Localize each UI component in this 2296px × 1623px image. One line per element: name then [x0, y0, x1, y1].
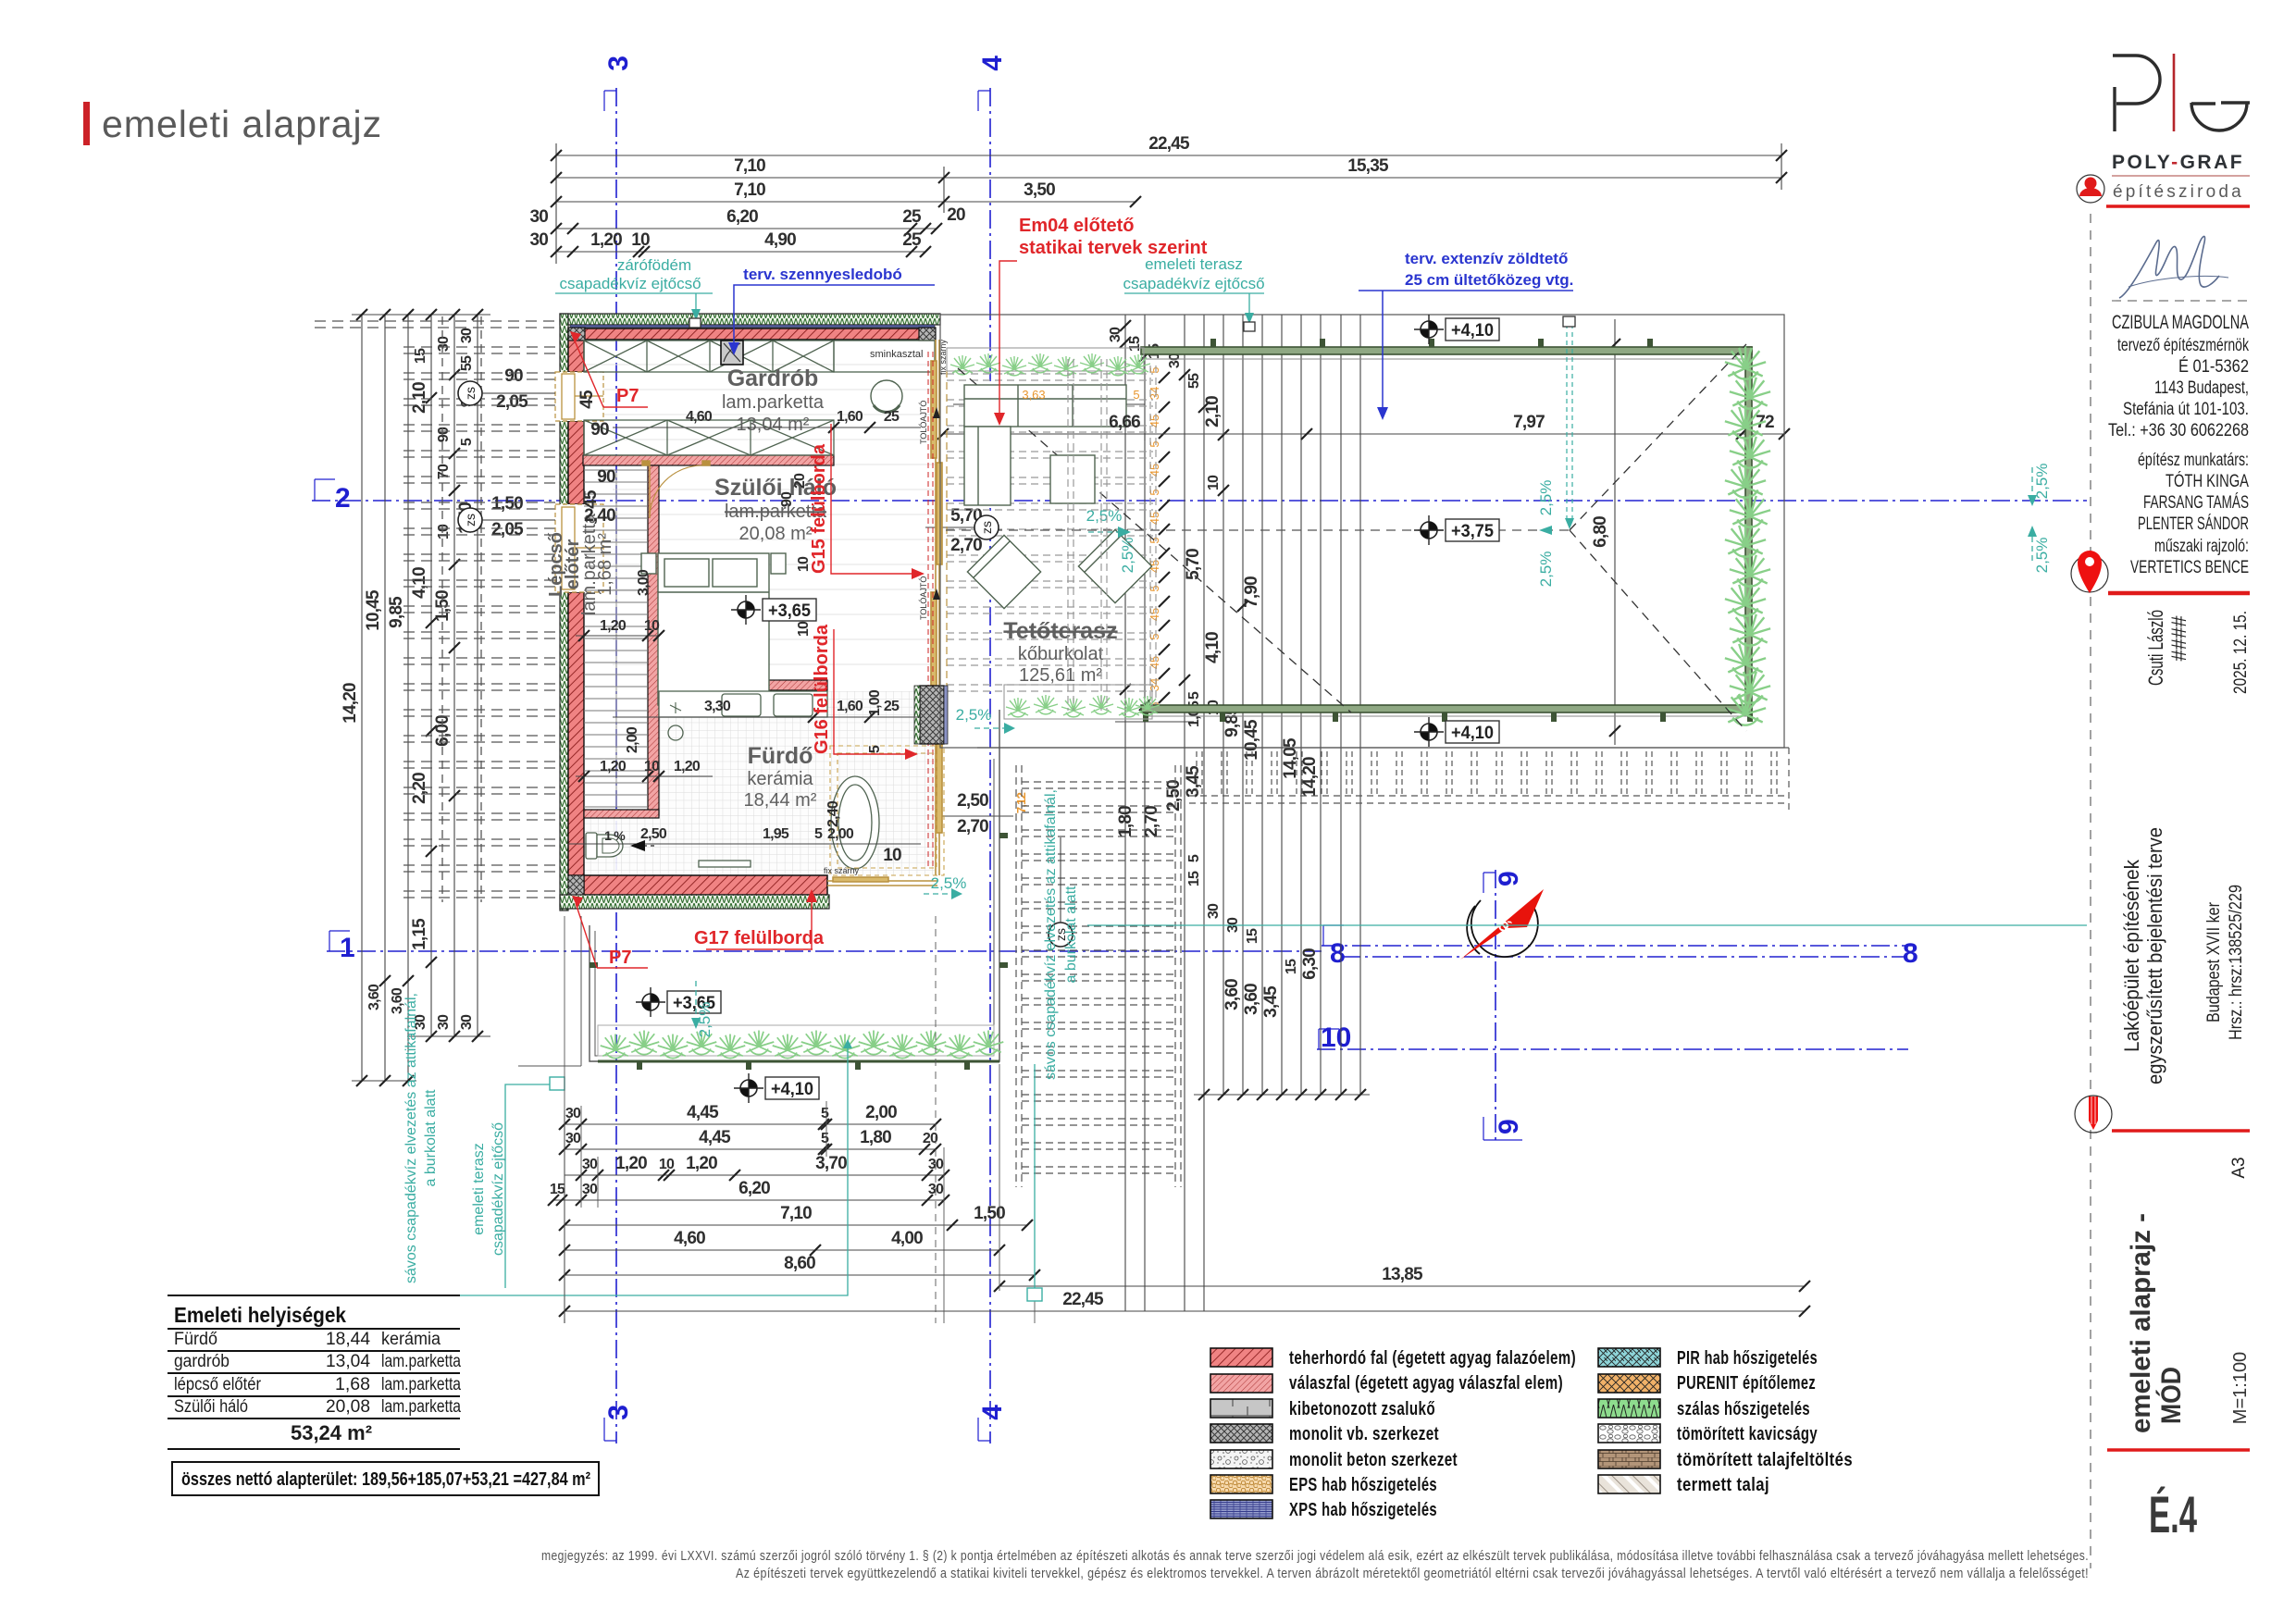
pin icon — [2071, 551, 2108, 593]
svg-text:7,10: 7,10 — [734, 180, 765, 200]
svg-text:45: 45 — [577, 390, 597, 409]
gardrob partition thin red wall — [583, 455, 834, 465]
svg-text:4,45: 4,45 — [699, 1128, 731, 1147]
top wall green insulation — [560, 314, 940, 325]
svg-text:7,10: 7,10 — [780, 1204, 812, 1223]
svg-text:30: 30 — [436, 336, 452, 352]
svg-text:9,85: 9,85 — [387, 596, 406, 628]
svg-text:5: 5 — [1148, 489, 1161, 495]
svg-text:1,80: 1,80 — [1116, 806, 1136, 837]
svg-text:G15 felülborda: G15 felülborda — [809, 443, 829, 574]
svg-text:2,20: 2,20 — [410, 773, 429, 804]
svg-text:+4,10: +4,10 — [1451, 724, 1494, 743]
svg-text:Tetőterasz: Tetőterasz — [1003, 618, 1117, 644]
svg-text:4: 4 — [977, 1405, 1008, 1420]
svg-text:7,97: 7,97 — [1513, 413, 1545, 432]
svg-text:+4,10: +4,10 — [771, 1080, 813, 1099]
svg-text:2,5%: 2,5% — [931, 874, 967, 892]
svg-text:2,5%: 2,5% — [1119, 538, 1136, 574]
svg-text:2,10: 2,10 — [1203, 396, 1222, 427]
teal downpipe vertical — [1567, 324, 1572, 524]
svg-text:90: 90 — [597, 467, 615, 487]
svg-text:POLY-GRAF: POLY-GRAF — [2112, 152, 2244, 173]
svg-text:csapadékvíz ejtőcső: csapadékvíz ejtőcső — [559, 275, 701, 292]
svg-text:VERTETICS BENCE: VERTETICS BENCE — [2130, 558, 2249, 577]
orange 5/45 mini chain — [1148, 366, 1170, 708]
svg-text:18,44: 18,44 — [326, 1330, 370, 1349]
svg-text:30: 30 — [459, 1014, 475, 1030]
svg-text:4,60: 4,60 — [686, 409, 713, 425]
svg-text:10: 10 — [1321, 1022, 1351, 1053]
svg-text:3,45: 3,45 — [1261, 985, 1281, 1018]
horizontal dims in terrace — [925, 319, 1784, 816]
svg-text:9: 9 — [1494, 1119, 1524, 1134]
right vertical dimension cluster — [1115, 315, 1370, 1311]
svg-text:terv. szennyesledobó: terv. szennyesledobó — [743, 266, 902, 283]
svg-text:3,60: 3,60 — [366, 984, 382, 1010]
stairs — [584, 470, 648, 807]
svg-text:tömörített kavicságy: tömörített kavicságy — [1677, 1424, 1818, 1444]
extension lines to bottom dims — [565, 916, 1035, 1323]
svg-text:5,70: 5,70 — [1184, 549, 1203, 580]
svg-text:XPS hab hőszigetelés: XPS hab hőszigetelés — [1289, 1500, 1437, 1520]
svg-text:3,63: 3,63 — [1022, 388, 1045, 402]
svg-text:45: 45 — [1148, 656, 1161, 669]
left wall green insulation — [560, 314, 568, 911]
bottom wall green insulation — [560, 895, 829, 909]
grid axis 10 horizontal — [1317, 1048, 1908, 1050]
svg-text:szálas hőszigetelés: szálas hőszigetelés — [1677, 1399, 1810, 1419]
top planter between building and roof — [947, 348, 1144, 371]
grid axis 3 vertical — [615, 88, 617, 1443]
svg-text:6,20: 6,20 — [726, 207, 758, 227]
svg-text:13,85: 13,85 — [1382, 1265, 1423, 1284]
svg-text:1,20: 1,20 — [600, 618, 627, 634]
svg-text:FARSANG TAMÁS: FARSANG TAMÁS — [2143, 493, 2249, 513]
svg-text:1,60: 1,60 — [837, 409, 863, 425]
svg-text:13,04: 13,04 — [326, 1352, 370, 1371]
posts on lower terrace edge — [637, 1061, 642, 1070]
svg-text:25: 25 — [884, 699, 900, 714]
svg-text:30: 30 — [565, 1106, 581, 1121]
svg-text:30: 30 — [1206, 903, 1222, 919]
svg-text:Stefánia út 101-103.: Stefánia út 101-103. — [2123, 400, 2249, 419]
svg-text:45: 45 — [1148, 464, 1161, 477]
svg-text:45: 45 — [1148, 512, 1161, 525]
laundry chute — [721, 341, 743, 365]
svg-text:7,90: 7,90 — [1242, 576, 1261, 608]
svg-text:7,10: 7,10 — [734, 156, 765, 176]
svg-text:3: 3 — [603, 1405, 634, 1420]
svg-text:P7: P7 — [609, 948, 631, 968]
svg-text:tervező építészmérnök: tervező építészmérnök — [2117, 336, 2249, 355]
top wall loadbearing red — [584, 328, 921, 340]
svg-text:TOLÓAJTÓ: TOLÓAJTÓ — [919, 576, 928, 620]
signature — [2119, 236, 2228, 298]
svg-text:1,15: 1,15 — [410, 918, 429, 950]
svg-text:45: 45 — [581, 489, 601, 509]
svg-text:PURENIT építőlemez: PURENIT építőlemez — [1677, 1373, 1816, 1394]
svg-text:13,04 m²: 13,04 m² — [737, 415, 810, 435]
svg-text:4,10: 4,10 — [410, 567, 429, 599]
svg-text:kibetonozott zsalukő: kibetonozott zsalukő — [1289, 1399, 1435, 1419]
svg-text:1,20: 1,20 — [615, 1154, 647, 1173]
svg-text:20: 20 — [792, 473, 808, 489]
svg-text:É 01-5362: É 01-5362 — [2178, 357, 2249, 377]
svg-text:20,08: 20,08 — [326, 1397, 370, 1417]
svg-text:15: 15 — [1186, 871, 1202, 886]
svg-text:É.4: É.4 — [2149, 1485, 2197, 1543]
svg-text:15: 15 — [550, 1182, 565, 1197]
svg-text:5: 5 — [1148, 585, 1161, 591]
svg-text:55: 55 — [1186, 373, 1202, 389]
svg-text:Budapest XVII ker: Budapest XVII ker — [2204, 901, 2224, 1022]
svg-text:8: 8 — [1903, 938, 1918, 969]
svg-text:####: #### — [2167, 615, 2191, 662]
svg-text:5: 5 — [821, 1131, 829, 1146]
svg-text:30: 30 — [1108, 327, 1123, 342]
top dimension chains — [556, 143, 1781, 264]
svg-text:1,80: 1,80 — [860, 1128, 891, 1147]
svg-text:gardrób: gardrób — [174, 1352, 230, 1371]
svg-text:8: 8 — [1330, 938, 1346, 969]
svg-text:monolit beton szerkezet: monolit beton szerkezet — [1289, 1450, 1458, 1470]
svg-text:emeleti alaprajz -: emeleti alaprajz - — [2126, 1213, 2156, 1433]
svg-text:14,20: 14,20 — [1300, 757, 1320, 798]
svg-text:30: 30 — [582, 1182, 598, 1197]
right plant column — [1725, 346, 1770, 725]
grid axis 2 horizontal — [312, 500, 2087, 502]
green roof bottom rail — [1141, 705, 1753, 722]
svg-text:15: 15 — [413, 348, 428, 364]
legend — [1210, 1348, 1660, 1518]
svg-text:1,50: 1,50 — [491, 494, 523, 514]
svg-text:18,44 m²: 18,44 m² — [744, 790, 817, 811]
project name rotated — [2120, 827, 2246, 1084]
grid axis 9 vertical — [1495, 870, 1496, 1140]
svg-text:PIR hab hőszigetelés: PIR hab hőszigetelés — [1677, 1348, 1818, 1369]
svg-text:2,50: 2,50 — [640, 826, 667, 842]
svg-text:4,60: 4,60 — [674, 1229, 705, 1248]
svg-text:1,60: 1,60 — [837, 699, 863, 714]
rotated credits — [2144, 610, 2251, 694]
svg-text:2,00: 2,00 — [827, 826, 854, 842]
svg-text:20,08 m²: 20,08 m² — [739, 524, 813, 544]
svg-text:15: 15 — [1284, 959, 1299, 974]
svg-text:10: 10 — [659, 1157, 675, 1172]
sheet name rotated — [2126, 1213, 2251, 1433]
svg-text:+4,10: +4,10 — [1451, 321, 1494, 341]
green roof top rail — [1141, 339, 1752, 359]
svg-text:2,5%: 2,5% — [2033, 538, 2051, 574]
svg-text:emeleti alaprajz: emeleti alaprajz — [102, 103, 382, 145]
svg-text:építésziroda: építésziroda — [2113, 182, 2244, 202]
P|G logo — [2113, 56, 2250, 131]
bottom dimension chains — [553, 1110, 1805, 1323]
svg-text:1,68 m²: 1,68 m² — [595, 533, 615, 596]
teal right downpipe box — [1034, 1064, 1036, 1288]
svg-text:25: 25 — [884, 409, 900, 425]
svg-text:lam.parketta: lam.parketta — [381, 1352, 461, 1371]
svg-text:30: 30 — [459, 328, 475, 343]
svg-text:1,50: 1,50 — [974, 1204, 1005, 1223]
svg-text:3,00: 3,00 — [636, 569, 652, 596]
roof ridge dashed diagonals — [958, 344, 1746, 731]
left wall red piers — [568, 328, 584, 372]
teal rotated pipe notes left — [403, 789, 1079, 1283]
svg-text:5: 5 — [821, 1106, 829, 1121]
svg-text:20: 20 — [947, 205, 965, 225]
svg-text:2,05: 2,05 — [496, 392, 528, 412]
svg-text:25 cm ültetőközeg vtg.: 25 cm ültetőközeg vtg. — [1405, 271, 1573, 289]
svg-text:5: 5 — [1148, 633, 1161, 639]
svg-text:emeleti terasz: emeleti terasz — [1145, 255, 1243, 273]
svg-text:53,24 m²: 53,24 m² — [291, 1421, 372, 1444]
person icon — [2077, 175, 2104, 203]
svg-text:2: 2 — [335, 483, 351, 514]
svg-text:34: 34 — [1148, 387, 1161, 400]
svg-text:3,30: 3,30 — [704, 699, 731, 714]
red annotations — [570, 216, 1208, 968]
svg-text:monolit vb. szerkezet: monolit vb. szerkezet — [1289, 1424, 1439, 1444]
svg-text:10: 10 — [436, 524, 452, 539]
svg-text:10: 10 — [883, 846, 901, 865]
lower planter — [598, 1025, 994, 1056]
svg-text:PLENTER SÁNDOR: PLENTER SÁNDOR — [2138, 514, 2249, 534]
svg-text:9: 9 — [1494, 871, 1524, 886]
sheet title — [83, 102, 382, 145]
bathroom lower-right sliding door (tan dashed zone) — [830, 746, 944, 875]
svg-text:G16 felülborda: G16 felülborda — [812, 624, 832, 754]
svg-text:4,90: 4,90 — [764, 230, 796, 250]
lower terrace outline — [518, 710, 999, 1066]
svg-text:30: 30 — [565, 1131, 581, 1146]
svg-text:5: 5 — [459, 438, 475, 446]
svg-text:G17 felülborda: G17 felülborda — [694, 928, 825, 948]
svg-text:5: 5 — [867, 745, 883, 753]
svg-text:1,20: 1,20 — [674, 759, 701, 774]
svg-text:termett talaj: termett talaj — [1677, 1475, 1769, 1495]
svg-text:4,00: 4,00 — [891, 1229, 923, 1248]
svg-text:CZIBULA MAGDOLNA: CZIBULA MAGDOLNA — [2112, 312, 2249, 333]
svg-text:2,05: 2,05 — [491, 520, 524, 539]
svg-text:Fürdő: Fürdő — [748, 743, 813, 769]
corner block monolit top-left — [568, 328, 585, 341]
svg-text:Az építészeti tervek együttkez: Az építészeti tervek együttkezelendő a s… — [736, 1566, 2089, 1581]
svg-text:M=1:100: M=1:100 — [2230, 1352, 2251, 1424]
svg-text:1,20: 1,20 — [686, 1154, 717, 1173]
svg-text:sminkasztal: sminkasztal — [870, 349, 923, 360]
svg-text:1,00: 1,00 — [867, 689, 883, 716]
svg-text:2,70: 2,70 — [950, 536, 982, 555]
svg-text:30: 30 — [529, 207, 548, 227]
svg-text:55: 55 — [459, 355, 475, 371]
svg-text:6,30: 6,30 — [1300, 948, 1320, 980]
gardrob top cabinets — [584, 341, 935, 372]
svg-text:Fürdő: Fürdő — [174, 1330, 217, 1349]
svg-text:2,00: 2,00 — [865, 1103, 897, 1122]
svg-text:terv. extenzív zöldtető: terv. extenzív zöldtető — [1405, 250, 1568, 267]
partition vertical stair/bath — [648, 465, 659, 815]
bathroom fixtures — [586, 691, 879, 869]
svg-text:Gardrób: Gardrób — [727, 365, 819, 391]
svg-text:90: 90 — [779, 491, 795, 507]
parquet floor lines Gardrob+Szuloi halo — [583, 365, 935, 664]
svg-text:30: 30 — [436, 1014, 452, 1030]
svg-text:10,45: 10,45 — [364, 589, 383, 631]
svg-text:8,60: 8,60 — [784, 1254, 815, 1273]
green roof right rail — [1745, 347, 1752, 712]
svg-text:Tel.: +36 30 6062268: Tel.: +36 30 6062268 — [2108, 421, 2249, 440]
svg-text:3: 3 — [603, 56, 634, 71]
svg-text:sávos csapadékvíz elvezetés az: sávos csapadékvíz elvezetés az attikafal… — [1043, 789, 1059, 1080]
svg-text:Szülői háló: Szülői háló — [174, 1397, 248, 1417]
svg-text:összes nettó alapterület: 189,: összes nettó alapterület: 189,56+185,07+… — [181, 1469, 590, 1490]
door 90 bedroom — [642, 461, 710, 518]
terrace bottom planter — [1004, 685, 1152, 719]
svg-text:2,5%: 2,5% — [956, 706, 992, 724]
room table — [168, 1295, 460, 1449]
terrace furniture — [964, 385, 1152, 609]
window W2 1,50/2,05 — [555, 504, 603, 592]
svg-text:lépcső előtér: lépcső előtér — [174, 1375, 262, 1394]
svg-text:45: 45 — [1148, 608, 1161, 621]
architect info — [2108, 312, 2249, 577]
top wall XPS thin strip — [570, 325, 935, 328]
svg-text:125,61 m²: 125,61 m² — [1019, 665, 1102, 686]
corner block monolit top-right — [919, 328, 936, 341]
svg-text:Csuti László: Csuti László — [2144, 610, 2167, 686]
svg-text:zárófödém: zárófödém — [617, 256, 691, 274]
svg-text:90: 90 — [436, 427, 452, 442]
left dimension chains — [352, 315, 490, 1081]
dashed overhang ladders — [442, 316, 481, 902]
svg-text:a burkolat alatt: a burkolat alatt — [423, 1089, 439, 1187]
svg-text:2,5%: 2,5% — [2033, 464, 2051, 500]
svg-text:3,45: 3,45 — [1184, 765, 1203, 798]
svg-text:1 %: 1 % — [604, 828, 626, 843]
svg-text:1143 Budapest,: 1143 Budapest, — [2154, 378, 2249, 398]
svg-text:3,60: 3,60 — [1222, 979, 1242, 1010]
level markers — [636, 315, 1499, 1103]
interior small dims — [569, 427, 921, 844]
svg-text:90: 90 — [504, 366, 523, 386]
gardrob mid cabinets — [584, 420, 834, 455]
svg-text:45: 45 — [1148, 415, 1161, 427]
svg-text:2,70: 2,70 — [1142, 806, 1161, 837]
zs circles — [458, 381, 482, 405]
teal annotations — [555, 255, 1265, 331]
svg-text:90: 90 — [590, 420, 609, 440]
bottom deck band with vertical rungs — [977, 748, 1789, 810]
svg-text:10: 10 — [796, 621, 812, 637]
svg-text:15: 15 — [1245, 928, 1260, 944]
svg-text:10: 10 — [631, 230, 650, 250]
grid axis 4 vertical — [989, 88, 991, 1443]
terrace dashed rows (Em04 canopy) — [947, 365, 1156, 711]
svg-text:+3,65: +3,65 — [768, 601, 811, 621]
svg-text:kőburkolat: kőburkolat — [1018, 644, 1104, 664]
svg-text:2,10: 2,10 — [410, 382, 429, 414]
svg-text:emeleti terasz: emeleti terasz — [471, 1143, 487, 1235]
north arrow — [1460, 889, 1544, 960]
svg-text:csapadékvíz ejtőcső: csapadékvíz ejtőcső — [1123, 275, 1264, 292]
svg-text:10: 10 — [1206, 475, 1222, 490]
svg-text:1,68: 1,68 — [335, 1375, 370, 1394]
svg-text:egyszerűsített bejelentési ter: egyszerűsített bejelentési terve — [2143, 827, 2166, 1084]
svg-text:5: 5 — [1148, 440, 1161, 447]
svg-text:2,70: 2,70 — [957, 817, 988, 836]
svg-text:Emeleti helyiségek: Emeleti helyiségek — [174, 1303, 346, 1327]
+3,75 dashed leader — [946, 529, 1570, 531]
svg-text:5: 5 — [1148, 537, 1161, 543]
svg-text:14,05: 14,05 — [1281, 737, 1300, 779]
bathroom top thin red wall — [659, 680, 827, 690]
svg-text:tömörített talajfeltöltés: tömörített talajfeltöltés — [1677, 1450, 1853, 1470]
outer boundary — [940, 315, 1784, 748]
svg-text:lam.parketta: lam.parketta — [381, 1375, 461, 1394]
bathroom tile floor — [659, 691, 935, 875]
svg-text:2,5%: 2,5% — [1537, 480, 1555, 516]
svg-text:lam.parketta: lam.parketta — [381, 1397, 461, 1417]
svg-text:TÓTH KINGA: TÓTH KINGA — [2166, 471, 2249, 491]
svg-text:2,5%: 2,5% — [1086, 507, 1123, 525]
svg-text:kerámia: kerámia — [747, 769, 813, 789]
grid axis 8 horizontal — [1322, 945, 1912, 947]
svg-text:csapadékvíz ejtőcső: csapadékvíz ejtőcső — [490, 1122, 506, 1256]
svg-text:14,20: 14,20 — [341, 683, 360, 724]
svg-text:15,35: 15,35 — [1347, 156, 1389, 176]
svg-text:3,60: 3,60 — [1242, 984, 1261, 1015]
svg-text:teherhordó fal (égetett agyag: teherhordó fal (égetett agyag falazóelem… — [1289, 1348, 1576, 1369]
svg-text:1,20: 1,20 — [600, 759, 627, 774]
svg-text:műszaki rajzoló:: műszaki rajzoló: — [2154, 537, 2249, 556]
svg-text:6,80: 6,80 — [1591, 516, 1610, 548]
glass wall right side with sliding doors — [931, 340, 942, 875]
svg-text:TOLÓAJTÓ: TOLÓAJTÓ — [919, 401, 928, 444]
svg-text:5: 5 — [1186, 691, 1202, 700]
svg-text:Em04 előtető: Em04 előtető — [1019, 216, 1134, 236]
svg-text:fix szárny: fix szárny — [824, 866, 860, 875]
svg-text:4: 4 — [977, 56, 1008, 71]
svg-text:EPS hab hőszigetelés: EPS hab hőszigetelés — [1289, 1475, 1437, 1495]
svg-text:2,40: 2,40 — [825, 800, 841, 827]
svg-text:1: 1 — [340, 933, 355, 963]
svg-text:2025. 12. 15.: 2025. 12. 15. — [2231, 611, 2251, 694]
svg-text:6,66: 6,66 — [1109, 413, 1140, 432]
svg-text:3,70: 3,70 — [815, 1154, 847, 1173]
blue structural grid — [312, 88, 2087, 1443]
svg-text:P7: P7 — [616, 386, 639, 406]
svg-text:5: 5 — [1148, 366, 1161, 373]
svg-text:+3,75: +3,75 — [1451, 522, 1494, 541]
svg-text:a burkolat alatt: a burkolat alatt — [1063, 886, 1079, 984]
svg-text:2,00: 2,00 — [625, 726, 640, 753]
svg-text:30: 30 — [582, 1157, 598, 1172]
svg-text:22,45: 22,45 — [1148, 134, 1190, 154]
svg-text:6,20: 6,20 — [738, 1179, 770, 1198]
terrace mid double-dash verticals — [1068, 359, 1107, 711]
G16 corner block — [920, 686, 944, 744]
svg-text:1,20: 1,20 — [590, 230, 622, 250]
fine print — [541, 1548, 2089, 1581]
room labels — [546, 365, 1118, 811]
bed — [641, 553, 786, 705]
pen icon — [2075, 1096, 2112, 1133]
svg-text:lam.parketta: lam.parketta — [722, 392, 825, 413]
svg-text:kerámia: kerámia — [381, 1330, 441, 1349]
svg-text:Hrsz.: hrsz:138525/229: Hrsz.: hrsz:138525/229 — [2227, 885, 2246, 1040]
